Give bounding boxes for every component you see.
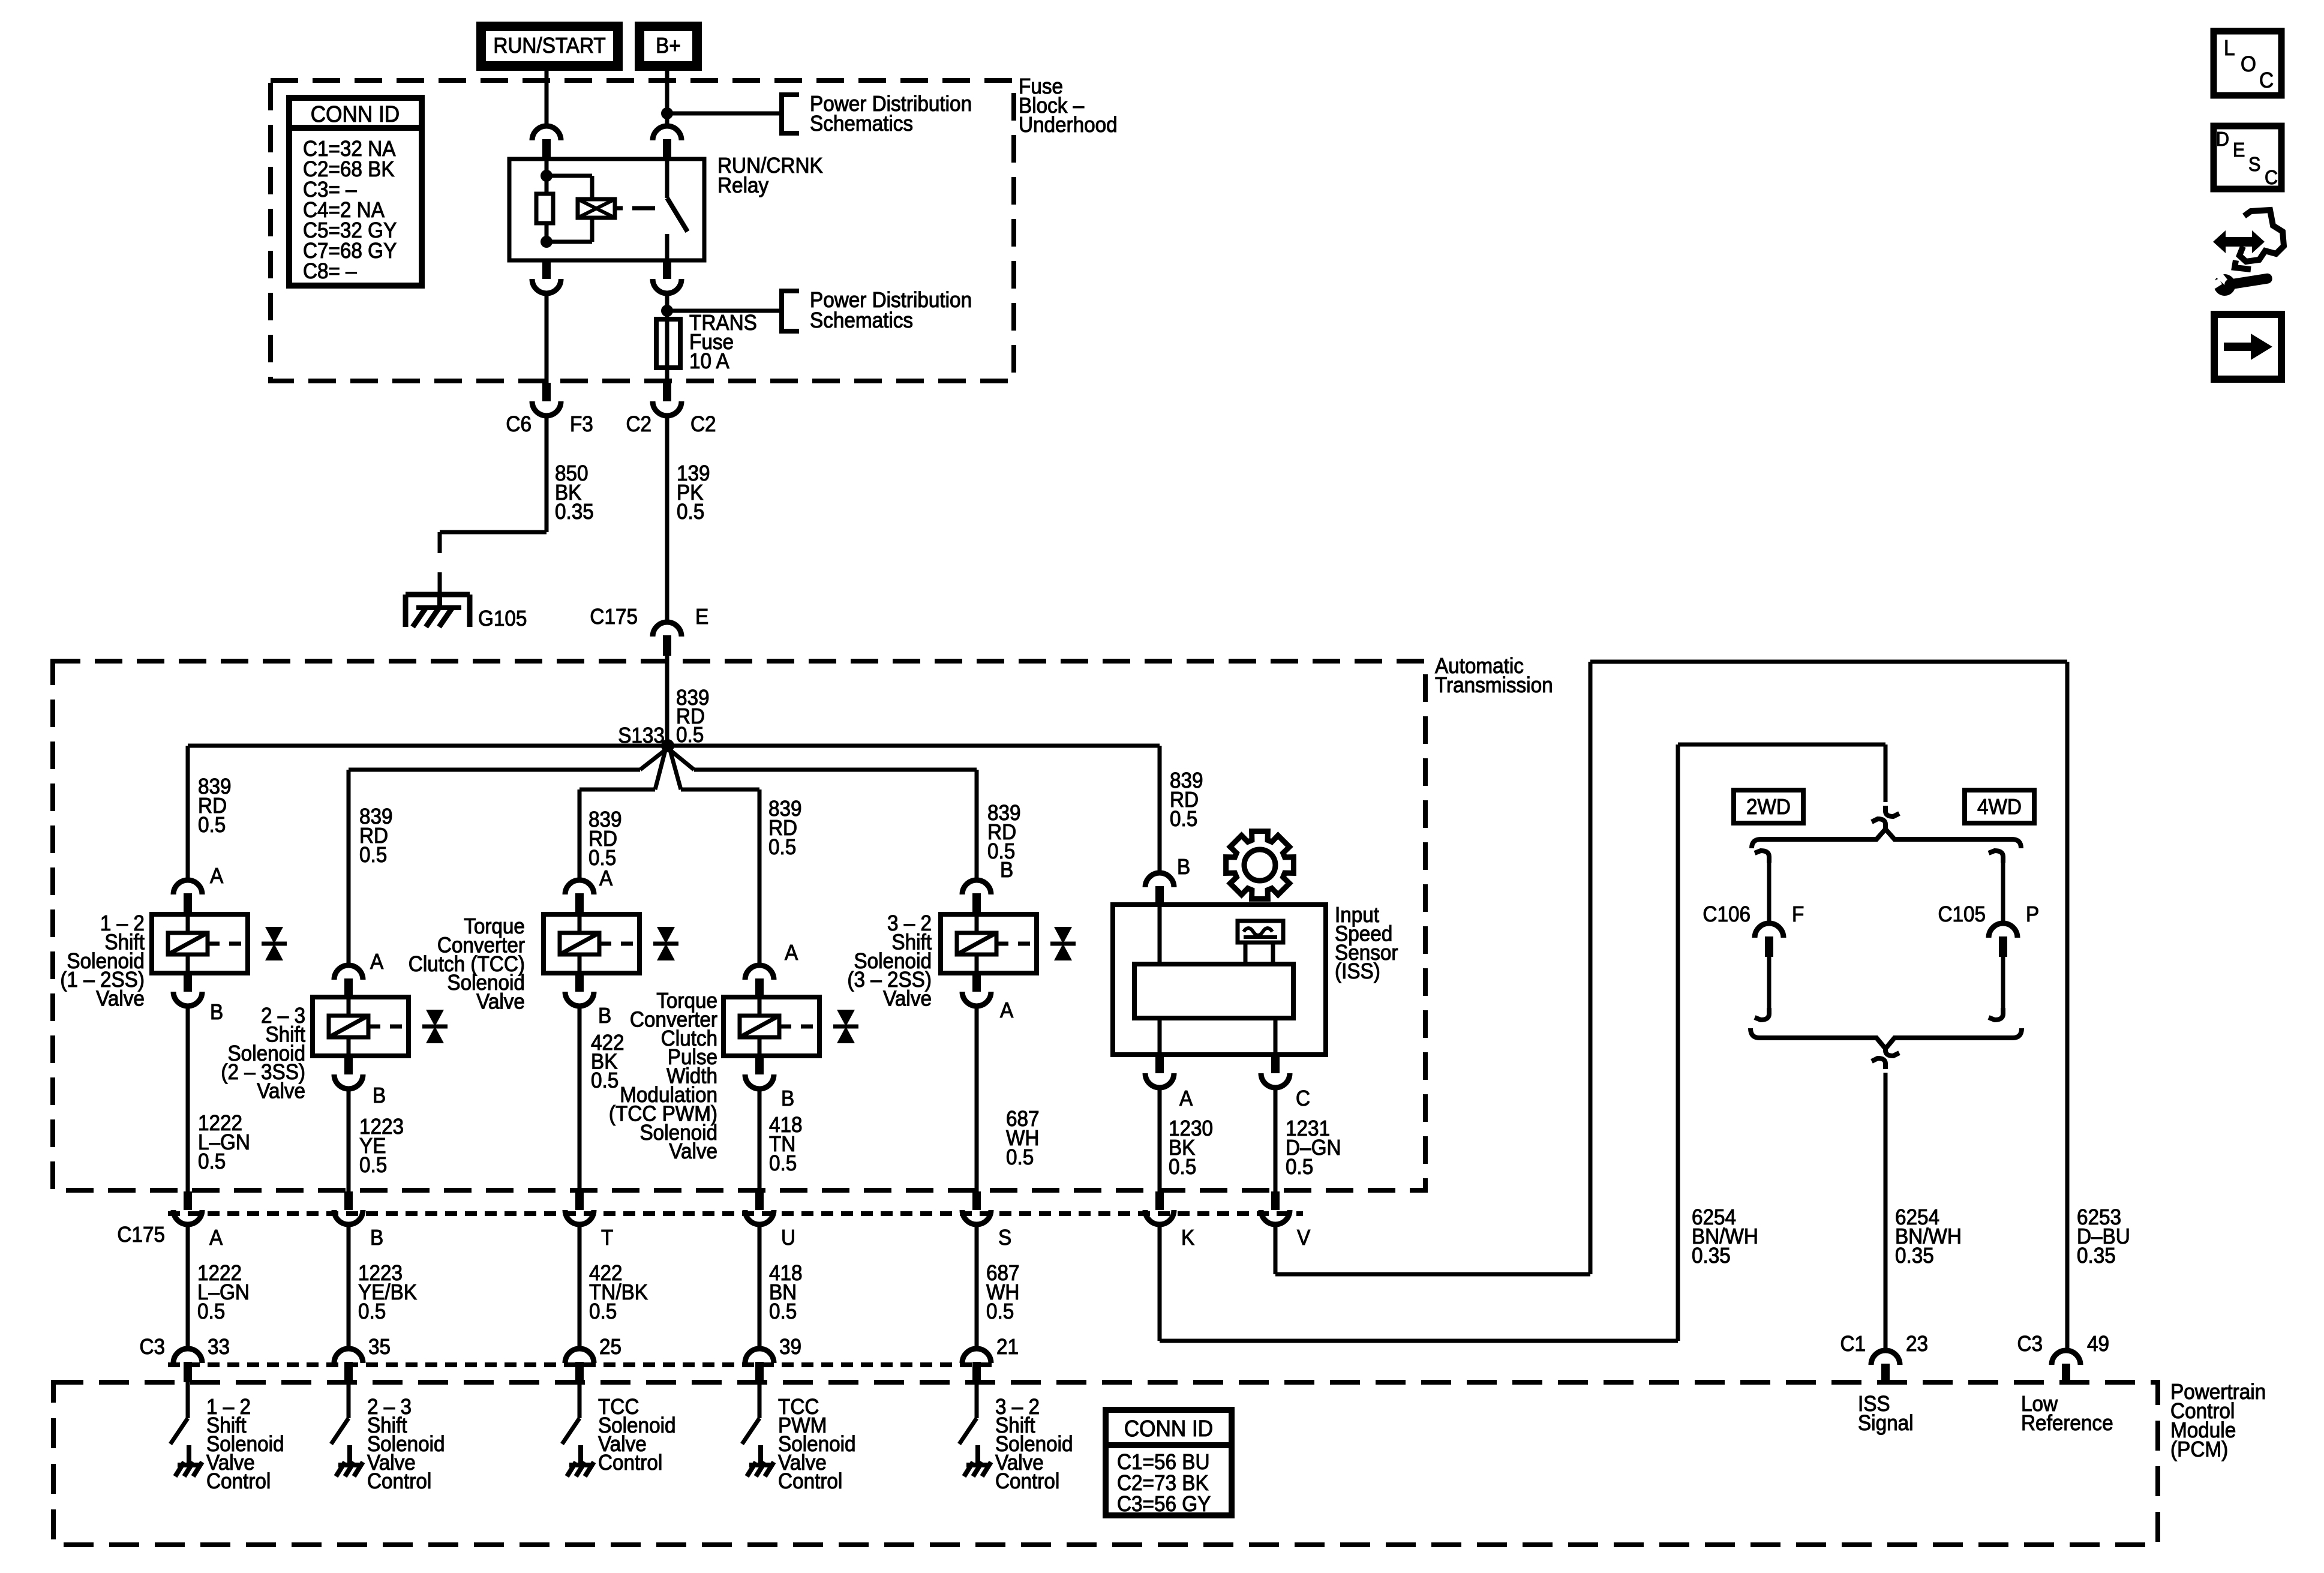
svg-text:C3=56 GY: C3=56 GY — [1117, 1493, 1211, 1516]
solenoid 2-3 shift (2-3SS) valve symbol — [426, 1010, 444, 1026]
solenoid TCC valve link (dashed) — [599, 942, 639, 946]
svg-text:RUN/START: RUN/START — [493, 34, 605, 58]
svg-text:A: A — [599, 867, 613, 890]
svg-text:21: 21 — [996, 1335, 1019, 1359]
wire 422 BK 0.5 (transmission) — [578, 1005, 582, 1193]
wire 839 RD 0.5 into transmission — [665, 656, 669, 746]
splice S133 fan diagonals — [640, 748, 668, 770]
svg-text:C2: C2 — [626, 413, 651, 436]
connector C175 pin B — [344, 1191, 353, 1210]
node B+ junction to power distribution — [661, 107, 673, 119]
power feed box RUN/START — [476, 22, 623, 71]
svg-text:B: B — [1000, 858, 1013, 882]
wire 418 BN 0.5 (to PCM) — [758, 1224, 762, 1348]
connector C175 pin A — [184, 1191, 192, 1210]
svg-text:C1: C1 — [1840, 1332, 1866, 1356]
svg-text:0.5: 0.5 — [769, 1300, 797, 1323]
ground (internal) 2-3 shift solenoid valve control — [347, 1445, 352, 1465]
connector C3 harness row (dotted) — [168, 1362, 996, 1367]
solenoid TCC PWM coil element — [740, 1016, 779, 1037]
icon DESC — [2214, 126, 2281, 189]
wire 850 BK 0.35 to ground — [545, 415, 549, 532]
svg-text:39: 39 — [779, 1335, 801, 1359]
svg-text:B: B — [210, 1001, 223, 1024]
relay coil branch node — [541, 170, 553, 182]
svg-text:V: V — [1297, 1226, 1310, 1250]
svg-text:Control: Control — [206, 1470, 271, 1493]
option brace (top) — [1752, 829, 2021, 848]
svg-text:K: K — [1181, 1226, 1194, 1250]
svg-text:B: B — [1177, 855, 1190, 879]
svg-text:0.35: 0.35 — [2077, 1244, 2116, 1268]
svg-text:49: 49 — [2087, 1332, 2109, 1356]
svg-text:C1=56 BU: C1=56 BU — [1117, 1451, 1209, 1474]
connector TCC PWM solenoid pin B — [755, 1056, 764, 1074]
connector C175 pin S — [972, 1191, 981, 1210]
option box 2WD — [1734, 790, 1803, 823]
svg-text:33: 33 — [208, 1335, 230, 1359]
svg-text:0.35: 0.35 — [555, 500, 594, 524]
ISS sensing element — [1238, 921, 1283, 942]
connector 3-2 shift solenoid pin A — [972, 973, 981, 992]
wire 1223 YE/BK 0.5 (to PCM) — [347, 1224, 351, 1348]
svg-text:C175: C175 — [117, 1223, 165, 1247]
svg-text:D: D — [2216, 128, 2229, 150]
svg-text:F: F — [1792, 903, 1804, 926]
svg-text:L: L — [2224, 37, 2235, 60]
svg-text:Valve: Valve — [883, 987, 932, 1010]
solenoid TCC valve symbol — [657, 927, 675, 944]
svg-text:B: B — [781, 1087, 794, 1110]
ISS internal bar — [1134, 964, 1293, 1018]
svg-text:T: T — [601, 1226, 613, 1250]
icon next arrow — [2214, 314, 2281, 379]
svg-text:S: S — [2248, 153, 2260, 175]
wire 1223 YE 0.5 (transmission) — [347, 1088, 351, 1193]
connector TCC solenoid pin B — [575, 973, 584, 992]
ground (internal) TCC solenoid valve control — [578, 1445, 583, 1465]
PCM driver switch TCC solenoid valve control — [578, 1382, 582, 1418]
solenoid 1-2 shift (1-2SS) coil element — [168, 933, 208, 954]
svg-text:Schematics: Schematics — [810, 112, 913, 136]
solenoid TCC coil box — [544, 914, 639, 973]
svg-text:4WD: 4WD — [1977, 795, 2022, 819]
relay actuation dashed link — [615, 206, 623, 211]
powertrain control module dashed outline — [53, 1382, 2158, 1545]
svg-text:A: A — [370, 950, 384, 974]
svg-text:P: P — [2026, 903, 2039, 926]
solenoid 1-2 shift (1-2SS) coil box — [152, 914, 248, 973]
svg-text:Underhood: Underhood — [1019, 113, 1118, 137]
wire 418 TN 0.5 (transmission) — [758, 1088, 762, 1193]
svg-text:0.5: 0.5 — [589, 1300, 617, 1323]
automatic transmission dashed outline — [53, 661, 1425, 1190]
wire B+ feed — [665, 71, 669, 125]
wire 6254 BN/WH 0.35 from K — [1158, 1224, 1162, 1341]
solenoid TCC PWM valve link (dashed) — [779, 1025, 819, 1029]
wire down to option brace — [1884, 745, 1888, 802]
svg-text:CONN ID: CONN ID — [1124, 1416, 1213, 1442]
ISS sensor box — [1113, 905, 1326, 1055]
wire S133 branch y1283 right — [694, 768, 977, 772]
svg-text:C2: C2 — [690, 413, 716, 436]
svg-text:0.35: 0.35 — [1692, 1244, 1731, 1268]
wire break above brace — [1885, 806, 1899, 816]
svg-text:10 A: 10 A — [689, 350, 729, 373]
svg-text:F3: F3 — [570, 413, 593, 436]
solenoid 3-2 shift (3-2SS) coil box — [941, 914, 1037, 973]
svg-text:0.5: 0.5 — [986, 1300, 1014, 1323]
relay suppression element — [547, 174, 592, 178]
solenoid 2-3 shift (2-3SS) valve link (dashed) — [368, 1025, 409, 1029]
svg-text:Schematics: Schematics — [810, 309, 913, 332]
wire 839 RD 0.5 drop to 3-2 shift solenoid — [975, 770, 979, 879]
ground G105 — [406, 592, 470, 598]
wire 139 PK 0.5 to C175 E — [665, 415, 669, 622]
connector below relay (left) — [542, 260, 551, 279]
wire 422 TN/BK 0.5 (to PCM) — [578, 1224, 582, 1348]
svg-text:Valve: Valve — [257, 1079, 305, 1103]
wire break below brace — [1885, 1045, 1899, 1056]
svg-text:B+: B+ — [656, 34, 681, 58]
svg-text:0.5: 0.5 — [1170, 807, 1197, 831]
svg-text:Reference: Reference — [2021, 1412, 2113, 1435]
svg-text:2WD: 2WD — [1746, 795, 1791, 819]
svg-text:0.5: 0.5 — [359, 1154, 387, 1177]
solenoid TCC coil element — [560, 933, 599, 954]
svg-text:E: E — [695, 605, 708, 629]
wire 6253 D-BU 0.35 from V — [1274, 1224, 1278, 1274]
node TRANS fuse feed junction — [661, 305, 673, 317]
svg-text:0.5: 0.5 — [769, 1152, 797, 1175]
fuse TRANS 10 A — [665, 311, 669, 384]
4WD branch wire — [1989, 851, 2003, 863]
svg-text:0.5: 0.5 — [1006, 1146, 1034, 1169]
wire relay output left — [545, 293, 549, 384]
reference bracket Power Distribution Schematics (lower) — [782, 291, 799, 331]
PCM driver switch 3-2 shift solenoid valve control — [975, 1382, 979, 1418]
gear icon (input speed) — [1226, 831, 1294, 899]
svg-text:0.5: 0.5 — [676, 724, 704, 747]
svg-text:0.5: 0.5 — [1286, 1155, 1313, 1179]
svg-text:E: E — [2233, 139, 2245, 161]
svg-text:C106: C106 — [1703, 903, 1750, 926]
svg-text:Control: Control — [995, 1470, 1059, 1493]
wire to power distribution reference — [667, 112, 782, 116]
connector below relay (right) — [663, 260, 671, 279]
svg-text:25: 25 — [599, 1335, 621, 1359]
svg-text:O: O — [2241, 53, 2256, 76]
svg-text:Control: Control — [598, 1451, 662, 1475]
svg-text:B: B — [370, 1226, 383, 1250]
relay coil lower node — [541, 236, 553, 248]
wire 1231 D-GN 0.5 — [1274, 1087, 1278, 1193]
wire 850 BK lower segment — [438, 572, 442, 595]
solenoid 3-2 shift (3-2SS) valve link (dashed) — [996, 942, 1037, 946]
svg-text:A: A — [1000, 999, 1014, 1022]
solenoid 2-3 shift (2-3SS) coil element — [329, 1016, 368, 1037]
svg-text:C105: C105 — [1938, 903, 1986, 926]
PCM driver switch TCC PWM solenoid valve control — [758, 1382, 762, 1418]
connector C175 harness row (dotted) — [168, 1211, 1303, 1216]
connector C175 pin T — [575, 1191, 584, 1210]
wire 687 WH 0.5 (to PCM) — [975, 1224, 979, 1348]
relay RUN/CRNK box — [509, 159, 704, 260]
svg-text:C2=73 BK: C2=73 BK — [1117, 1472, 1209, 1495]
ground (internal) 3-2 shift solenoid valve control — [975, 1445, 980, 1465]
svg-text:Control: Control — [778, 1470, 842, 1493]
icon LOC — [2214, 31, 2281, 95]
wire RUN/START feed — [545, 71, 549, 125]
svg-text:CONN ID: CONN ID — [311, 101, 400, 127]
wire 839 RD 0.5 drop to TCC PWM solenoid — [758, 789, 762, 965]
wire 687 WH 0.5 (transmission) — [975, 1005, 979, 1193]
svg-text:0.35: 0.35 — [1895, 1244, 1934, 1268]
relay switch — [665, 160, 669, 198]
svg-text:A: A — [210, 864, 224, 888]
svg-text:C: C — [2265, 166, 2278, 188]
wire to power distribution reference 2 — [667, 309, 782, 313]
svg-text:C: C — [2259, 69, 2274, 92]
wire 1222 L-GN 0.5 (to PCM) — [186, 1224, 190, 1348]
svg-text:C3: C3 — [139, 1335, 165, 1359]
svg-text:S: S — [998, 1226, 1011, 1250]
svg-text:Control: Control — [367, 1470, 431, 1493]
icon service tool (arrow + wrench) — [2213, 230, 2265, 253]
solenoid 2-3 shift (2-3SS) coil box — [313, 997, 409, 1056]
svg-text:B: B — [373, 1084, 386, 1107]
svg-text:0.5: 0.5 — [591, 1069, 618, 1092]
svg-text:Relay: Relay — [717, 174, 769, 197]
connector relay pin 30 (B+) — [653, 126, 681, 140]
svg-text:C175: C175 — [590, 605, 638, 629]
connector relay pin 86 (RUN/START) — [532, 126, 561, 140]
wire 839 RD 0.5 drop to TCC solenoid — [578, 789, 582, 879]
ground (internal) 1-2 shift solenoid valve control — [187, 1445, 191, 1465]
svg-text:B: B — [598, 1004, 611, 1028]
CONN ID table (fuse block) — [289, 98, 422, 286]
svg-text:0.5: 0.5 — [1169, 1155, 1196, 1179]
connector ISS pin C — [1274, 1018, 1278, 1055]
svg-text:A: A — [1179, 1087, 1193, 1110]
svg-text:C8= –: C8= – — [303, 260, 357, 283]
solenoid 1-2 shift (1-2SS) valve symbol — [265, 927, 283, 944]
relay coil resistor — [536, 194, 553, 223]
connector C2/C2 at fuse block exit — [663, 383, 671, 401]
ground (internal) TCC PWM solenoid valve control — [758, 1445, 763, 1465]
CONN ID table (PCM) — [1106, 1410, 1232, 1515]
wire 1222 L-GN 0.5 (transmission) — [186, 1005, 190, 1193]
svg-text:35: 35 — [368, 1335, 391, 1359]
svg-text:Signal: Signal — [1858, 1412, 1914, 1435]
connector 1-2 shift solenoid pin B — [184, 973, 192, 992]
svg-text:(PCM): (PCM) — [2170, 1438, 2228, 1461]
solenoid 1-2 shift (1-2SS) valve link (dashed) — [208, 942, 248, 946]
power feed box B+ — [635, 22, 702, 71]
option brace (bottom) — [1750, 1028, 2022, 1049]
wire S133 bus y1243 — [188, 744, 1160, 748]
svg-text:0.5: 0.5 — [198, 813, 226, 837]
wire 6254 BN/WH 0.35 (ISS signal to PCM) — [1884, 1073, 1888, 1350]
wire S133 branch y1316 right — [681, 788, 759, 792]
PCM driver switch 2-3 shift solenoid valve control — [347, 1382, 351, 1418]
svg-text:0.5: 0.5 — [359, 843, 387, 867]
svg-text:0.5: 0.5 — [677, 500, 704, 524]
wire 1230 BK 0.5 — [1158, 1087, 1162, 1193]
svg-text:C3: C3 — [2017, 1332, 2043, 1356]
connector C175 pin V — [1271, 1191, 1280, 1210]
svg-text:C6: C6 — [506, 413, 532, 436]
connector 2-3 shift solenoid pin B — [344, 1056, 353, 1074]
svg-text:(ISS): (ISS) — [1335, 960, 1380, 983]
wire 839 RD 0.5 drop to ISS pin B — [1158, 746, 1162, 872]
svg-text:C: C — [1296, 1087, 1310, 1110]
solenoid 3-2 shift (3-2SS) valve symbol — [1054, 927, 1072, 944]
svg-text:A: A — [209, 1226, 223, 1250]
svg-text:Valve: Valve — [476, 990, 525, 1013]
solenoid TCC PWM coil box — [723, 997, 819, 1056]
wire S133 branch y1283 left — [349, 768, 640, 772]
connector C6/F3 at fuse block exit — [542, 383, 551, 401]
svg-text:Valve: Valve — [669, 1140, 717, 1163]
wire 839 RD 0.5 drop to 2-3 shift solenoid — [347, 770, 351, 965]
reference bracket Power Distribution Schematics (top) — [782, 95, 799, 133]
svg-text:Valve: Valve — [96, 987, 145, 1010]
svg-text:0.5: 0.5 — [197, 1300, 225, 1323]
connector ISS pin A — [1158, 1018, 1162, 1055]
connector C175 pin K — [1155, 1191, 1164, 1210]
PCM driver switch 1-2 shift solenoid valve control — [186, 1382, 190, 1418]
connector C175 pin U — [755, 1191, 764, 1210]
svg-text:0.5: 0.5 — [198, 1150, 226, 1173]
solenoid 3-2 shift (3-2SS) coil element — [957, 933, 996, 954]
option box 4WD — [1965, 790, 2034, 823]
svg-text:U: U — [781, 1226, 795, 1250]
fuse block dashed outline — [271, 80, 1014, 381]
solenoid TCC PWM valve symbol — [837, 1010, 855, 1026]
wire S133 branch y1316 left — [580, 788, 655, 792]
wire relay output right — [665, 293, 669, 311]
wire 839 RD 0.5 drop to 1-2 shift solenoid — [186, 746, 190, 879]
2WD branch wire — [1755, 851, 1769, 863]
svg-text:G105: G105 — [478, 607, 527, 631]
svg-text:A: A — [785, 941, 798, 965]
svg-text:Transmission: Transmission — [1435, 674, 1553, 697]
svg-text:23: 23 — [1906, 1332, 1928, 1356]
svg-text:0.5: 0.5 — [358, 1300, 386, 1323]
svg-text:0.5: 0.5 — [768, 836, 796, 859]
